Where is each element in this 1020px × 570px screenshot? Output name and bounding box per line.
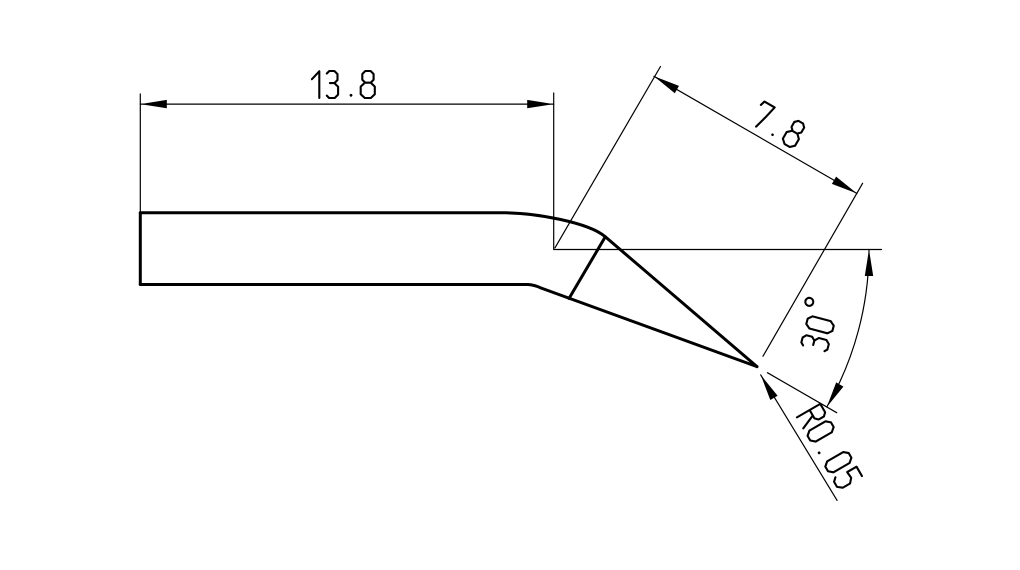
dimension line 7.8	[654, 76, 857, 193]
extension line 1 of dim 7.8 (from bend vertex)	[555, 67, 661, 248]
dimension text 13.8	[312, 71, 375, 98]
angle text 30 deg	[794, 297, 839, 352]
tip body outline: bottom contour (straight, bend arc, cylinder 30 deg, cone lower edge)	[140, 285, 757, 367]
arrowhead dim 13.8 right	[527, 100, 554, 108]
arrowhead leader R0.05	[761, 375, 778, 400]
extension line right of dim 13.8	[553, 93, 555, 250]
arrowhead arc top	[865, 250, 873, 277]
dimension text 7.8	[750, 101, 807, 149]
arrowhead dim 7.8 lower	[832, 177, 857, 194]
tip body outline: top contour (straight, bend arc, cone upper edge)	[140, 213, 757, 367]
tip body outline: left end cap	[139, 213, 142, 285]
leader line R0.05	[761, 375, 837, 501]
angle dimension arc 30 deg	[827, 250, 869, 408]
radius text R0.05	[797, 404, 862, 490]
dimension line 13.8	[140, 103, 553, 105]
horizontal reference line	[554, 249, 882, 251]
extension line 2 of dim 7.8 (from tip)	[763, 183, 863, 356]
arrowhead dim 7.8 upper	[654, 76, 679, 93]
arrowhead arc bottom	[827, 382, 844, 407]
extension line left of dim 13.8	[139, 94, 141, 213]
cone transition line	[569, 237, 605, 299]
30 degree ray beyond tip	[767, 373, 836, 413]
arrowhead dim 13.8 left	[140, 100, 167, 108]
